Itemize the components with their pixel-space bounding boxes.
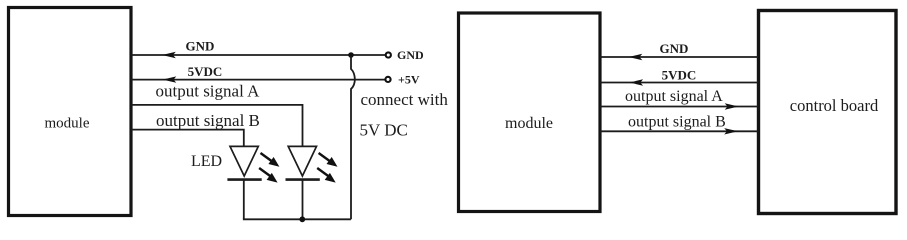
svg-text:GND: GND	[397, 48, 424, 62]
wire 5VDC (module to +5V terminal)	[131, 79, 385, 81]
svg-text:output signal A: output signal A	[156, 81, 261, 100]
arrow on output signal A wire (points right toward control board)	[725, 103, 739, 109]
svg-text:output signal B: output signal B	[156, 111, 260, 130]
svg-text:GND: GND	[186, 39, 215, 54]
LED D1 (left LED: triangle + cathode bar)	[227, 146, 261, 179]
terminal GND (open circle)	[386, 52, 391, 57]
wire output signal A (module M2 to control board)	[600, 106, 758, 108]
svg-text:connect with: connect with	[361, 90, 449, 109]
svg-text:module: module	[505, 115, 553, 132]
svg-text:module: module	[45, 115, 90, 131]
svg-text:5V DC: 5V DC	[360, 121, 408, 140]
wire GND (control board to module M2)	[600, 56, 758, 58]
label connect with 5V DC	[360, 90, 449, 140]
wire LED D2 cathode to rail	[302, 180, 304, 220]
svg-text:output signal B: output signal B	[628, 114, 726, 131]
arrow on output signal B wire (points right toward control board)	[724, 128, 738, 134]
wire output signal B (module M2 to control board)	[600, 130, 758, 132]
module M1 (left diagram box)	[9, 8, 132, 216]
svg-text:LED: LED	[191, 153, 222, 170]
terminal +5V (open circle)	[385, 77, 390, 82]
LED D2 (right LED: triangle + cathode bar)	[286, 146, 320, 179]
control board box	[759, 11, 897, 214]
LED D2 light arrows	[317, 153, 337, 183]
svg-text:+5V: +5V	[398, 73, 420, 87]
wire ground rail (bottom)	[243, 218, 351, 220]
svg-text:output signal A: output signal A	[625, 88, 723, 105]
svg-text:5VDC: 5VDC	[188, 64, 223, 79]
svg-text:5VDC: 5VDC	[662, 67, 697, 82]
svg-text:control board: control board	[790, 96, 879, 115]
LED D1 light arrows	[259, 153, 279, 183]
arrow on 5VDC wire (points left toward module)	[163, 76, 177, 82]
wire output signal A (module to LED D2 anode)	[131, 105, 303, 146]
junction dot node GND	[348, 52, 354, 58]
wire output signal B (module to LED D1 anode)	[131, 130, 244, 146]
svg-text:GND: GND	[660, 41, 689, 56]
junction dot on rail	[299, 216, 305, 222]
wire LED D1 cathode to rail	[243, 180, 245, 220]
arrow on GND wire (points left toward module M2)	[629, 54, 643, 60]
wire 5VDC (control board to module M2)	[600, 82, 758, 84]
wire GND (module to GND terminal)	[131, 54, 386, 56]
arrow on GND wire (points left toward module)	[162, 52, 176, 58]
wire GND return vertical with hop over 5VDC wire	[351, 56, 355, 219]
module M2 (right diagram box)	[459, 13, 601, 212]
arrow on 5VDC wire (points left toward module M2)	[629, 79, 643, 85]
